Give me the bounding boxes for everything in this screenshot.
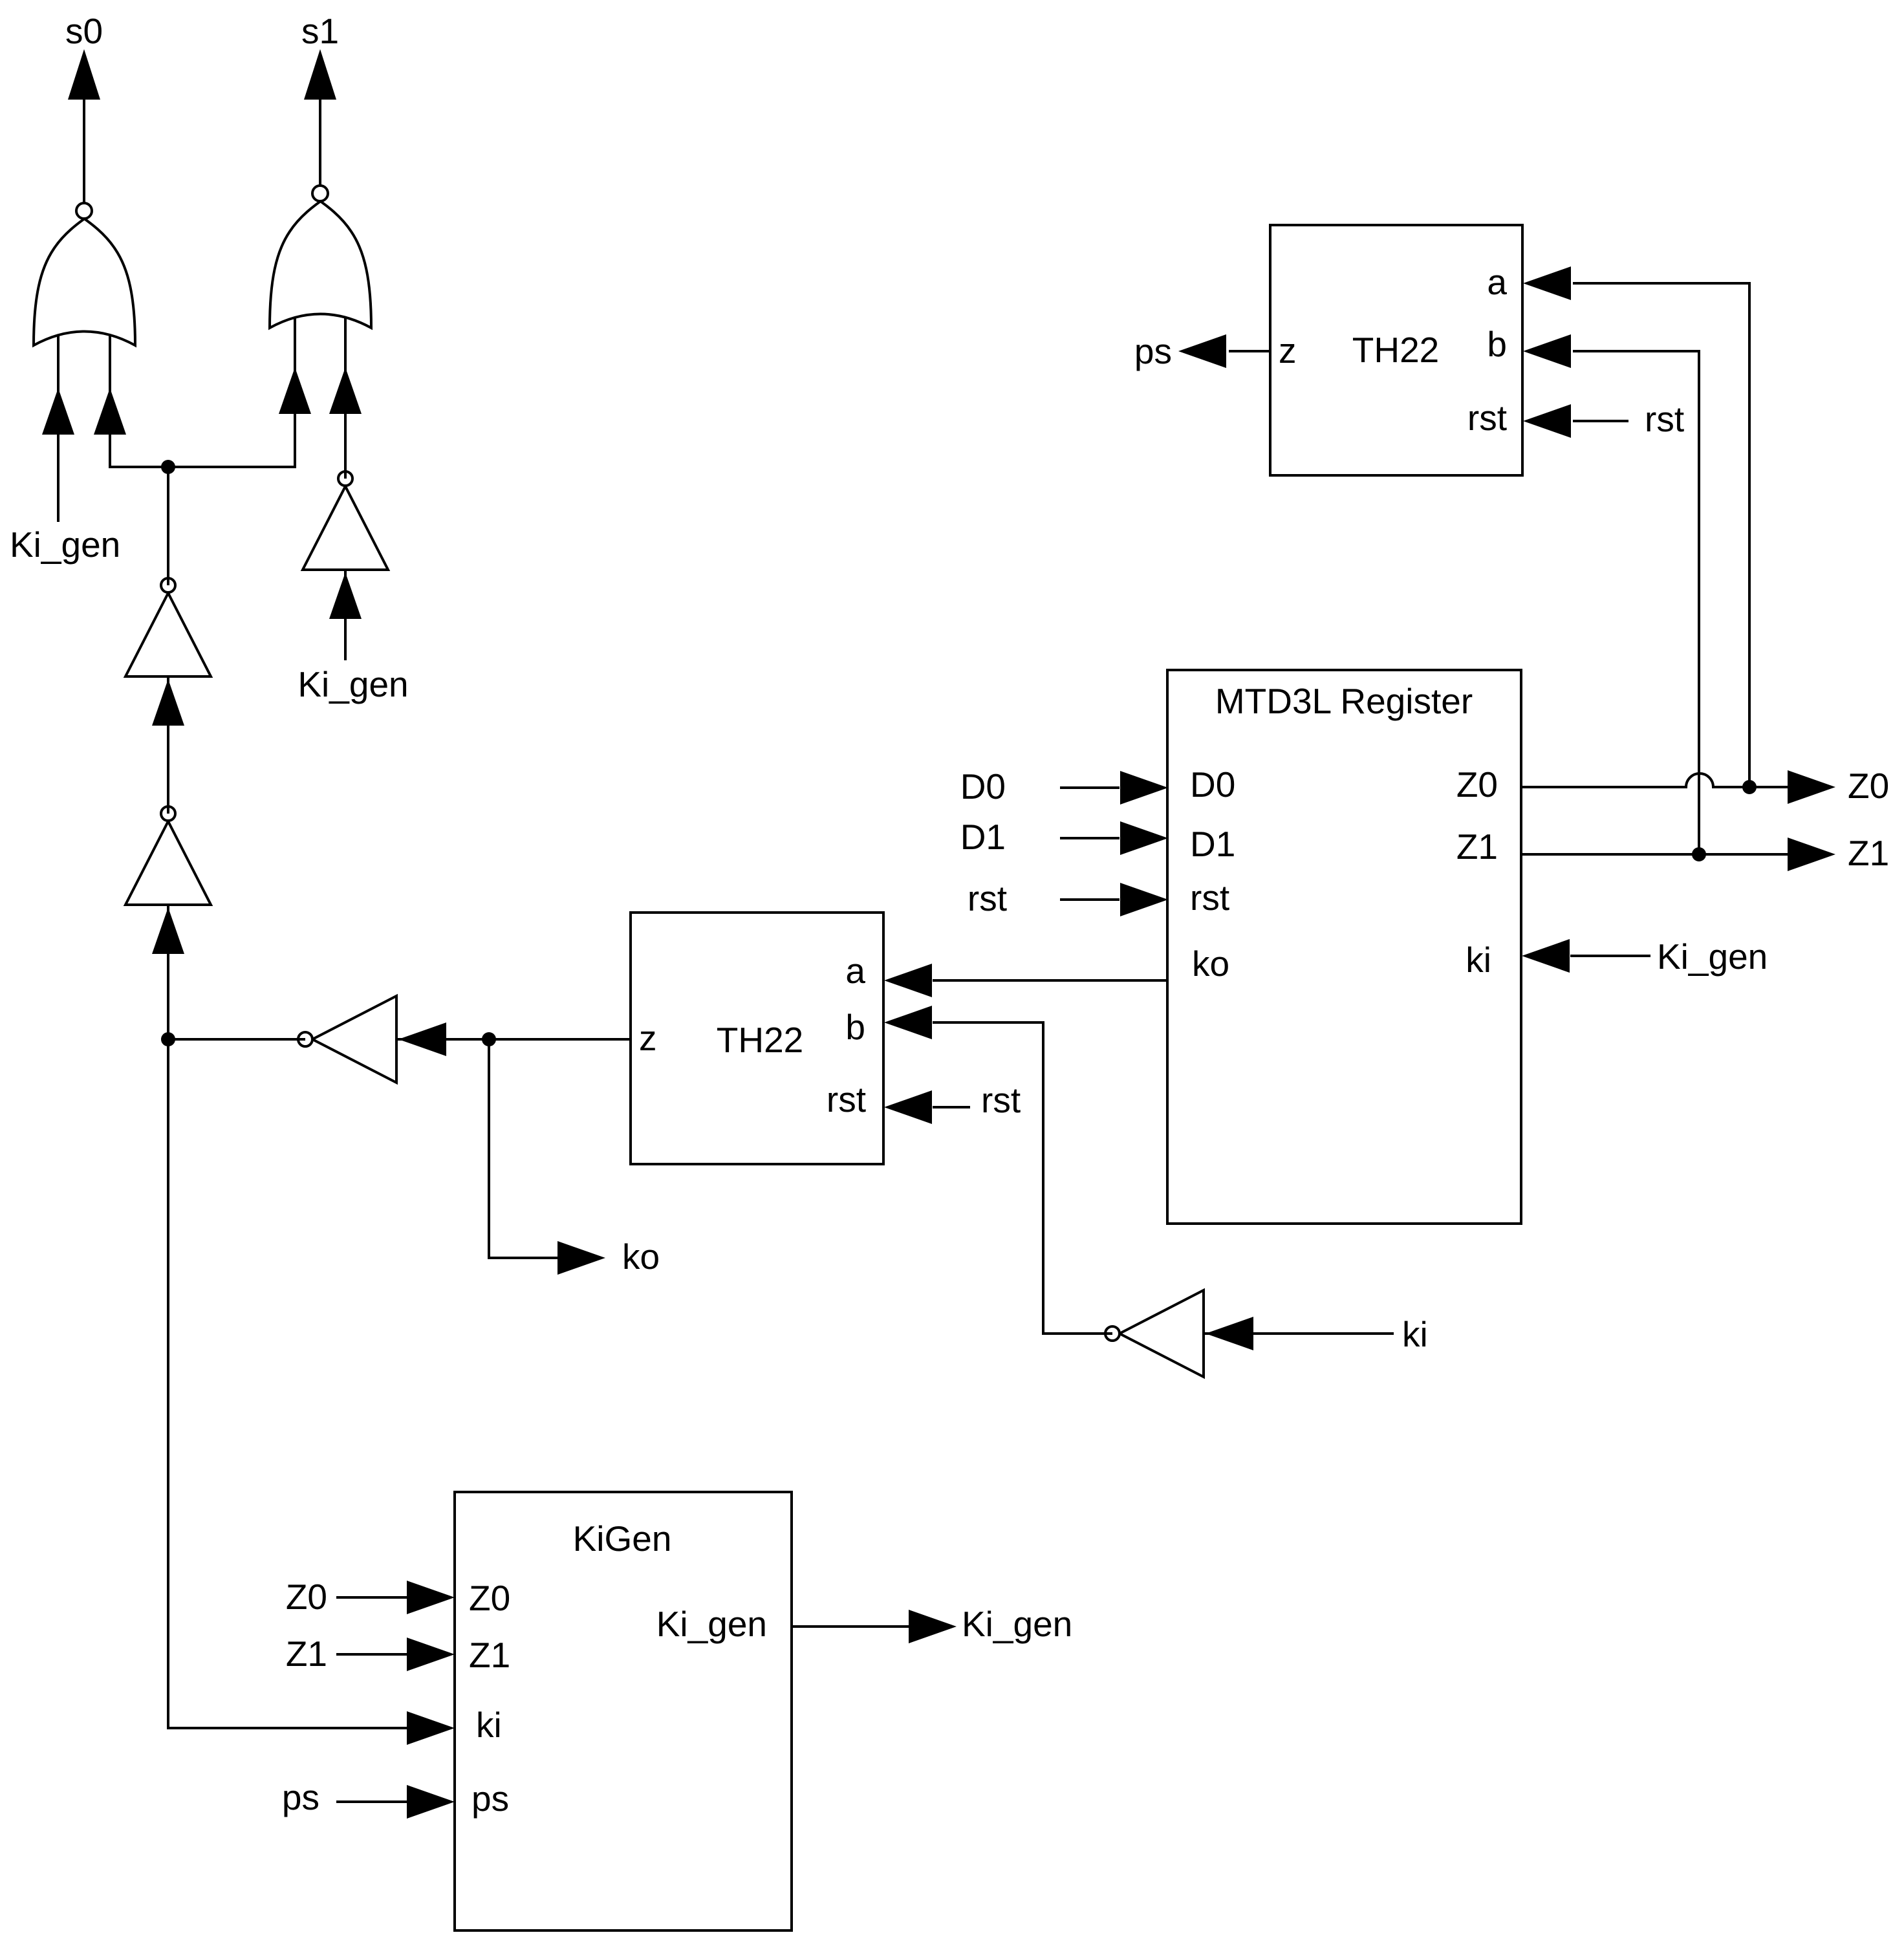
svg-text:ps: ps (471, 1778, 509, 1819)
svg-text:ki: ki (1402, 1314, 1428, 1354)
svg-text:Ki_gen: Ki_gen (962, 1604, 1072, 1644)
svg-text:ko: ko (622, 1237, 660, 1277)
svg-text:Z0: Z0 (469, 1578, 510, 1618)
svg-text:b: b (1487, 324, 1507, 364)
svg-text:D0: D0 (1190, 764, 1235, 805)
svg-text:Z0: Z0 (1848, 766, 1889, 806)
svg-text:D0: D0 (960, 766, 1006, 806)
svg-text:z: z (1279, 330, 1297, 371)
svg-text:ko: ko (1192, 944, 1229, 984)
svg-text:TH22: TH22 (717, 1020, 804, 1060)
svg-text:ps: ps (282, 1777, 319, 1817)
svg-text:TH22: TH22 (1352, 330, 1440, 370)
svg-text:Z1: Z1 (1456, 827, 1498, 867)
svg-text:Ki_gen: Ki_gen (10, 524, 120, 565)
svg-text:rst: rst (1467, 398, 1507, 438)
svg-text:rst: rst (1645, 399, 1684, 439)
svg-text:ki: ki (1466, 940, 1491, 980)
svg-text:s1: s1 (301, 11, 339, 51)
svg-text:rst: rst (981, 1080, 1021, 1120)
svg-text:Ki_gen: Ki_gen (1657, 936, 1768, 977)
svg-text:Ki_gen: Ki_gen (297, 664, 408, 704)
svg-text:a: a (845, 951, 865, 991)
svg-text:Z1: Z1 (1848, 833, 1889, 873)
svg-text:Z0: Z0 (286, 1577, 327, 1617)
svg-text:Ki_gen: Ki_gen (656, 1604, 767, 1644)
svg-text:s0: s0 (65, 11, 103, 51)
svg-text:ps: ps (1134, 331, 1172, 371)
svg-text:D1: D1 (960, 817, 1006, 857)
svg-text:rst: rst (827, 1079, 866, 1119)
svg-text:D1: D1 (1190, 824, 1235, 864)
svg-text:MTD3L Register: MTD3L Register (1215, 681, 1473, 721)
svg-text:z: z (639, 1018, 657, 1058)
svg-text:ki: ki (476, 1705, 502, 1745)
svg-text:rst: rst (968, 878, 1007, 918)
svg-text:Z0: Z0 (1456, 764, 1498, 805)
svg-text:Z1: Z1 (469, 1635, 510, 1675)
svg-text:a: a (1487, 262, 1507, 302)
svg-text:Z1: Z1 (286, 1634, 327, 1674)
svg-text:KiGen: KiGen (573, 1519, 672, 1559)
svg-text:b: b (845, 1007, 865, 1047)
svg-text:rst: rst (1190, 878, 1229, 918)
